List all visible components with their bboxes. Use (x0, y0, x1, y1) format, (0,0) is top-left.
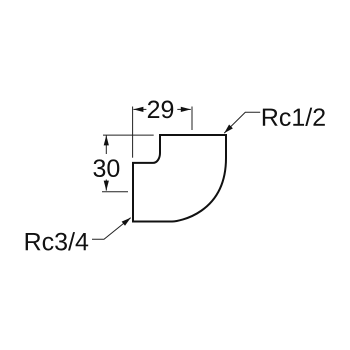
dim 29 text (148, 101, 173, 119)
dim 30 arrow up (104, 135, 109, 145)
dim 30 line lower segment (105, 180, 107, 191)
dim 29 extension line left (132, 107, 134, 158)
dim 30 line upper segment (105, 135, 107, 154)
leader Rc1/2 line (224, 112, 260, 133)
dim 30 extension line bottom (102, 191, 128, 193)
dim 30 extension line top (103, 134, 154, 136)
dim 29 line left segment (133, 108, 146, 110)
dim 29 extension line right (191, 107, 193, 131)
dim 29 arrow left (133, 107, 143, 112)
dim 29 arrow right (181, 107, 191, 112)
label Rc3/4 (26, 232, 89, 250)
fitting body outline (133, 135, 226, 222)
dim 30 arrow down (104, 181, 109, 191)
label Rc1/2 (263, 108, 325, 126)
dim 29 line right segment (177, 108, 191, 110)
leader Rc1/2 arrow (222, 125, 233, 136)
leader Rc3/4 line (92, 218, 131, 240)
leader Rc3/4 arrow (122, 216, 133, 226)
dim 30 text (93, 159, 119, 177)
